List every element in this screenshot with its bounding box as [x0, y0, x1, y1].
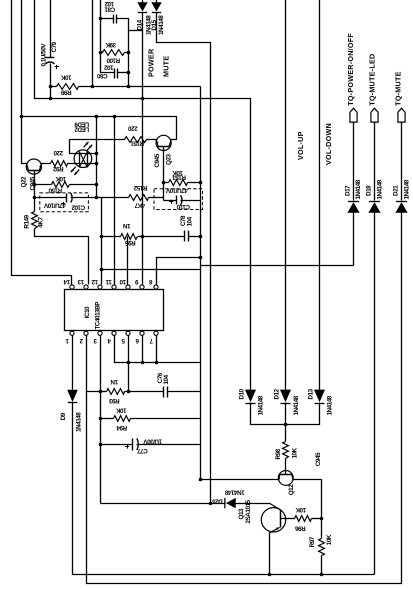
wire pin2 column to bottom — [87, 214, 402, 584]
resistor R94 10K — [114, 416, 131, 422]
svg-text:C79: C79 — [51, 41, 58, 52]
diode D17 — [347, 202, 359, 213]
svg-text:R151: R151 — [130, 140, 144, 147]
ic IC10 bottom pins — [70, 331, 74, 335]
ic IC10 body — [65, 290, 164, 331]
node join bus center — [284, 423, 288, 427]
wire C80 right lead — [118, 72, 129, 74]
svg-text:1N: 1N — [123, 222, 131, 229]
svg-text:VOL-DOWN: VOL-DOWN — [324, 123, 333, 165]
capacitor C78 — [184, 231, 186, 242]
svg-text:C945: C945 — [315, 452, 322, 466]
wire VOL-UP line — [285, 0, 287, 390]
wire R100 left lead — [101, 52, 103, 54]
node R94 pin3 — [99, 417, 103, 421]
svg-text:47U/10V: 47U/10V — [43, 201, 66, 208]
svg-text:R95: R95 — [124, 239, 135, 246]
svg-text:TC4013BP: TC4013BP — [94, 302, 101, 330]
svg-text:D17: D17 — [344, 185, 351, 196]
svg-text:C80: C80 — [96, 72, 107, 79]
transistor Q23 circle — [156, 135, 171, 150]
led LED2/LED9 bars — [79, 152, 81, 168]
svg-text:102: 102 — [103, 63, 113, 70]
node R97 on bottom bus — [320, 573, 324, 577]
label C79 plus — [55, 66, 59, 68]
svg-text:TQ-POWER-ON/OFF: TQ-POWER-ON/OFF — [346, 33, 355, 106]
wire bus A from top-left to D10 column — [35, 0, 251, 390]
wire C81 branch to D14 line — [129, 30, 143, 32]
node R100 left junction — [99, 51, 103, 55]
wire D25 net from pin3 — [101, 503, 225, 505]
wire pin8 elbow — [157, 258, 201, 285]
svg-text:10K: 10K — [60, 74, 71, 81]
wire C110 leads — [164, 200, 177, 202]
diode D12 — [280, 390, 291, 403]
diode D25 — [226, 498, 236, 508]
wire TQ-POWER pin lead — [353, 123, 355, 201]
svg-text:R149: R149 — [23, 214, 30, 228]
node C81 tap on x100.7 — [99, 17, 103, 21]
label C102 plus — [61, 203, 65, 205]
node R153 right — [199, 181, 203, 185]
svg-text:1N4148: 1N4148 — [404, 179, 411, 199]
node Q12 emitter x200 — [199, 478, 203, 482]
svg-text:1N4148: 1N4148 — [158, 15, 165, 35]
svg-text:MUTE: MUTE — [161, 56, 170, 77]
wire pin12 column — [101, 198, 103, 285]
connector pin TQ-MUTE-LED — [371, 108, 378, 122]
node R93 pin3 cross — [99, 390, 103, 394]
resistor R150 10K — [52, 182, 70, 188]
svg-text:C81: C81 — [104, 5, 115, 12]
wire LED column — [96, 117, 98, 198]
svg-text:R92: R92 — [52, 165, 63, 172]
wire stub x92 to R99 — [92, 0, 94, 87]
wire LED net to R151 — [70, 139, 125, 141]
svg-text:VOL-UP: VOL-UP — [296, 131, 305, 160]
svg-text:2SA1015: 2SA1015 — [245, 499, 252, 523]
wire D14 anode stub — [142, 0, 144, 3]
svg-text:1U/30V: 1U/30V — [143, 438, 163, 445]
wire R152 leads — [102, 197, 129, 199]
svg-text:104: 104 — [163, 374, 170, 384]
resistor R92 220 — [51, 161, 68, 167]
node Q13 on bottom bus — [268, 573, 272, 577]
svg-text:Q12: Q12 — [288, 484, 295, 495]
svg-text:14: 14 — [63, 278, 70, 285]
transistor Q22 collector diagonal — [27, 164, 29, 170]
node LED bottom rail — [95, 162, 99, 166]
node C78 on x200 — [199, 235, 203, 239]
svg-text:1N4148: 1N4148 — [293, 395, 300, 415]
wire pin11 column — [114, 117, 116, 285]
svg-text:1N4148: 1N4148 — [224, 488, 244, 495]
wire D9 to bottom bus — [73, 403, 375, 575]
node R100 right junction — [127, 51, 131, 55]
wire pin10 column — [127, 237, 129, 285]
node pin11 on bus B — [113, 115, 117, 119]
svg-text:47U/10V: 47U/10V — [165, 187, 188, 194]
node C79 line on bus A — [49, 97, 53, 101]
resistor R97 10K vertical — [319, 539, 325, 556]
svg-text:R97: R97 — [309, 536, 316, 547]
wire Q12 collector elbow — [294, 480, 322, 519]
wire pin3 column — [100, 336, 102, 504]
resistor R95 1N — [121, 234, 138, 240]
transistor Q22 circle — [26, 159, 41, 174]
capacitor C80 plates — [114, 69, 116, 79]
wire Q13 emitter down — [269, 533, 271, 575]
wire pin1 D9 column — [72, 336, 74, 390]
wire LED bottom rail — [68, 163, 97, 165]
svg-text:R94: R94 — [116, 424, 127, 431]
node LED top rail — [95, 152, 99, 156]
wire second bus to Q22 collector — [22, 0, 27, 164]
label C110 plus — [169, 201, 173, 203]
wire pin7 stub — [156, 336, 158, 363]
transistor Q13 collector diagonal — [269, 503, 280, 510]
wire C76 right lead — [168, 391, 201, 393]
svg-text:10K: 10K — [292, 447, 299, 458]
resistor R99 10K — [57, 84, 79, 90]
svg-text:Q13: Q13 — [238, 508, 245, 519]
svg-text:D12: D12 — [274, 388, 281, 399]
node D25 on MUTE — [209, 502, 213, 506]
wire R98 top lead — [285, 425, 287, 442]
svg-text:39K: 39K — [105, 41, 116, 48]
node pin6 y362 — [141, 361, 145, 365]
node C77 pin3 — [99, 443, 103, 447]
wire POWER line D14 to IC pin9 — [142, 13, 144, 285]
label C77 plus — [125, 446, 129, 448]
svg-text:C110: C110 — [176, 203, 190, 210]
transistor Q12 circle — [278, 471, 293, 486]
svg-text:TQ-MUTE-LED: TQ-MUTE-LED — [367, 54, 376, 106]
svg-text:1N4148: 1N4148 — [327, 395, 334, 415]
svg-text:IC10: IC10 — [84, 306, 91, 318]
wire pin6 stub — [142, 336, 144, 363]
svg-text:R100: R100 — [106, 57, 120, 64]
transistor Q23 emitter diagonal — [156, 140, 158, 147]
wire diode join bus — [251, 403, 320, 425]
node Q22 base R150 — [33, 183, 37, 187]
wire C102 leads — [35, 197, 67, 199]
wire C78 net — [143, 236, 185, 238]
wire Q23 base down — [163, 147, 165, 201]
wire Q12 emitter to x200 — [201, 479, 279, 481]
svg-text:1N4148: 1N4148 — [355, 179, 362, 199]
resistor R149 4K7 vertical — [32, 212, 38, 229]
node bus-B tap — [20, 115, 24, 119]
svg-text:10: 10 — [119, 278, 126, 285]
wire Q22 emitter to R92 — [42, 163, 51, 165]
svg-text:13: 13 — [77, 278, 84, 285]
svg-text:Q22: Q22 — [20, 176, 27, 187]
transistor Q23 base bar — [158, 146, 170, 148]
node x92 on R99 wire — [91, 85, 95, 89]
wire pin5 column — [128, 336, 130, 392]
capacitor C79 — [46, 57, 55, 59]
wire R153 leads — [164, 182, 169, 184]
wire x200 column — [200, 87, 202, 480]
svg-text:4K7: 4K7 — [37, 217, 44, 228]
wire VOL-DOWN line — [319, 0, 321, 390]
led arrows lower — [74, 170, 79, 176]
svg-text:Q23: Q23 — [166, 154, 173, 165]
diode D13 — [314, 390, 325, 403]
wire R100 right lead — [125, 52, 129, 54]
node pin5 y362 — [127, 361, 131, 365]
svg-text:1N4148: 1N4148 — [376, 179, 383, 199]
transistor Q23 collector diagonal — [169, 141, 171, 147]
capacitor C81 plates — [113, 15, 115, 24]
svg-text:10K: 10K — [326, 534, 333, 545]
node x129 on R99 wire — [127, 85, 131, 89]
svg-text:D25: D25 — [212, 498, 223, 505]
svg-text:11: 11 — [105, 278, 112, 285]
wire R150 leads — [35, 184, 52, 186]
node C79/R99 junction — [49, 85, 53, 89]
connector pin TQ-MUTE — [398, 108, 405, 122]
svg-text:D9: D9 — [60, 412, 67, 420]
svg-text:220: 220 — [53, 149, 63, 156]
wire R96 right lead — [312, 518, 322, 520]
wire net x100.7 top — [101, 0, 115, 73]
node Q23 base R153 — [162, 181, 166, 185]
transistor Q13 circle — [261, 508, 285, 532]
svg-text:104: 104 — [186, 216, 193, 226]
diode D10 — [245, 390, 256, 403]
svg-text:R99: R99 — [60, 89, 71, 96]
box C102 dashed — [40, 193, 89, 212]
node R93 right pin5 — [127, 390, 131, 394]
wire left bus to IC pin 14 — [12, 0, 72, 285]
svg-text:R153: R153 — [172, 173, 186, 180]
svg-text:10K: 10K — [295, 506, 306, 513]
resistor R100 39K — [103, 50, 125, 56]
led arrows upper — [84, 142, 89, 148]
diode D9 — [67, 390, 78, 402]
wire C79 bottom to bus A — [50, 64, 52, 99]
resistor R98 10K vertical — [283, 442, 289, 459]
resistor R153 10K — [169, 180, 188, 186]
wire D17 elbow to x200 — [353, 213, 355, 266]
wire R94 leads — [101, 418, 114, 420]
node C80 right junction — [127, 71, 131, 75]
wire C81 right route — [117, 19, 129, 87]
wire R97 bottom lead — [321, 556, 323, 575]
wire horizontal y269 — [102, 269, 201, 271]
svg-text:4K7: 4K7 — [134, 202, 145, 209]
node R95 right on POWER — [141, 235, 145, 239]
wire R99 net — [79, 86, 201, 88]
capacitor C77 — [132, 439, 134, 451]
node R150 right — [95, 183, 99, 187]
node C102 right — [95, 196, 99, 200]
wire R149 to IC pin13 — [35, 229, 89, 285]
svg-text:TQ-MUTE: TQ-MUTE — [394, 71, 403, 106]
capacitor C110 — [176, 196, 178, 205]
svg-text:R93: R93 — [108, 397, 119, 404]
wire TQ-MUTE-LED pin lead — [374, 123, 376, 201]
wire C81 left lead — [101, 18, 114, 20]
wire bus B to Q23 right — [22, 117, 177, 140]
diode D14 — [137, 2, 147, 11]
transistor Q12 collector diagonal — [292, 474, 294, 480]
wire R95 leads — [102, 236, 121, 238]
svg-text:LED2: LED2 — [74, 125, 89, 132]
node pin8 on x200 — [199, 256, 203, 260]
wire R98 bottom lead — [285, 459, 287, 475]
node Q22 base C102 — [33, 196, 37, 200]
resistor R151 220 — [125, 137, 147, 143]
svg-text:220: 220 — [127, 124, 137, 131]
transistor Q12 base bar — [280, 474, 293, 476]
wire TQ-MUTE pin lead — [401, 123, 403, 201]
wire C79 top feed — [50, 0, 52, 58]
svg-text:C945: C945 — [154, 153, 161, 167]
svg-text:D10: D10 — [238, 388, 245, 399]
svg-text:D13: D13 — [307, 388, 314, 399]
capacitor C102 — [66, 194, 68, 203]
svg-text:R98: R98 — [275, 448, 282, 459]
svg-text:C102: C102 — [71, 204, 85, 211]
svg-text:D18: D18 — [366, 185, 373, 196]
wire R97 top lead — [321, 519, 323, 539]
svg-text:1N4148: 1N4148 — [75, 412, 82, 432]
diode D18 — [368, 202, 380, 213]
wire MUTE line D15 elbow — [157, 13, 211, 504]
wire D15 anode stub — [156, 0, 158, 3]
node y269 left — [100, 268, 104, 272]
wire D25 anode to Q13 — [236, 503, 270, 505]
resistor R96 10K — [295, 516, 312, 522]
svg-text:12: 12 — [91, 278, 98, 285]
led LED2/LED9 cross diodes — [79, 152, 87, 168]
resistor R152 4K7 — [129, 195, 149, 201]
wire Q13 base to R96 — [281, 518, 295, 520]
wire R151 right lead — [147, 139, 157, 141]
wire horizontal y266 to D17 — [201, 265, 354, 267]
led LED2/LED9 circle — [74, 150, 92, 168]
transistor Q12 emitter diagonal — [278, 474, 280, 480]
wire D21 lead — [401, 213, 403, 214]
svg-text:1N: 1N — [110, 378, 118, 385]
svg-text:C77: C77 — [137, 447, 148, 454]
diode D15 — [151, 2, 161, 11]
svg-text:R96: R96 — [294, 524, 305, 531]
node pin7 y362 — [155, 361, 159, 365]
node R96 R97 junction — [320, 517, 324, 521]
ic IC10 top pins — [70, 285, 74, 289]
svg-text:1N4148: 1N4148 — [258, 395, 265, 415]
wire D18 to bottom bus — [374, 213, 376, 575]
svg-text:R152: R152 — [133, 184, 147, 191]
resistor R93 1N — [107, 389, 125, 395]
wire LED top elbow — [70, 140, 97, 154]
svg-text:10K: 10K — [115, 406, 126, 413]
capacitor C76 — [163, 387, 165, 398]
wire C77 leads — [101, 444, 133, 446]
svg-text:R150: R150 — [48, 186, 62, 193]
svg-text:10K: 10K — [55, 175, 66, 182]
transistor Q22 base bar — [28, 170, 41, 172]
node POWER on bus A — [141, 97, 145, 101]
diode D21 — [395, 202, 407, 213]
node LED column on bus B — [95, 115, 99, 119]
transistor Q13 emitter diagonal — [269, 527, 279, 533]
svg-text:D21: D21 — [393, 185, 400, 196]
connector pin TQ-POWER-ON/OFF — [350, 108, 357, 122]
transistor Q22 emitter diagonal — [40, 164, 42, 170]
wire R99 left lead — [51, 86, 57, 88]
box C110 dashed — [154, 189, 203, 210]
svg-text:POWER: POWER — [146, 48, 155, 77]
transistor Q13 base bar — [280, 510, 282, 528]
wire pins 4-7 bus — [115, 336, 201, 363]
svg-text:0.1U/50V: 0.1U/50V — [41, 43, 48, 67]
wire Q22 base down — [34, 171, 36, 212]
node R95 left — [100, 235, 104, 239]
wire C78 right lead — [189, 236, 201, 238]
wire D12 to join — [285, 403, 287, 425]
wire R93 leads — [87, 391, 107, 393]
